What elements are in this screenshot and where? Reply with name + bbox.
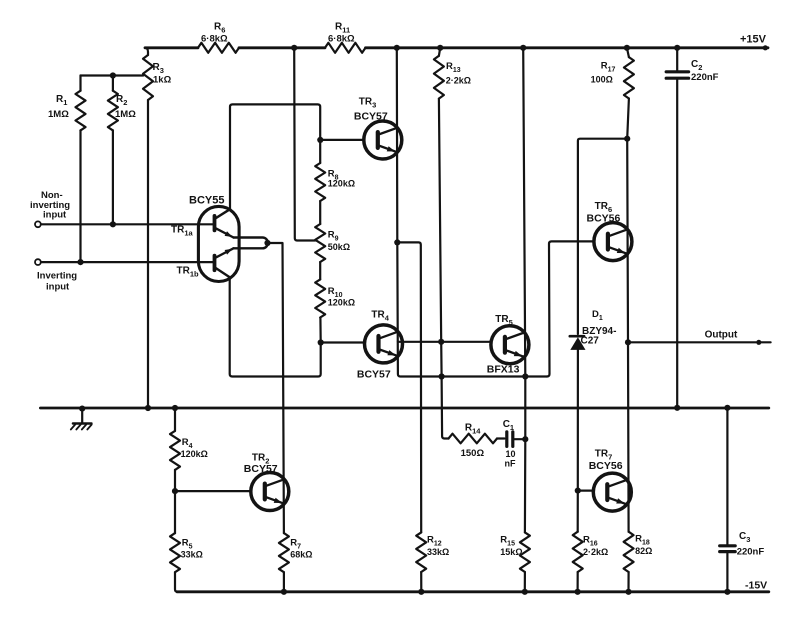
wire R15 to rail: [524, 572, 526, 592]
label C3: [737, 531, 765, 558]
svg-text:82Ω: 82Ω: [635, 546, 652, 556]
svg-text:input: input: [46, 282, 70, 293]
wire R7 to bottom rail: [283, 572, 285, 592]
wire tee to R12 column: [397, 242, 421, 532]
transistor TR1a collector: [216, 209, 231, 218]
svg-text:Output: Output: [705, 330, 738, 341]
wire ground rail: [40, 407, 768, 410]
label R7: [290, 538, 312, 560]
wire TR3-TR4 column: [397, 242, 547, 376]
wire R2 to non-inverting input: [112, 130, 114, 224]
wire TR3 collector column: [396, 48, 399, 243]
label R11: [328, 22, 355, 45]
node +15V label: [740, 34, 767, 46]
label C1: [503, 419, 516, 469]
node ground stub junction: [79, 406, 85, 412]
wire node to R16: [577, 491, 579, 532]
node tail junction: [264, 240, 270, 246]
wire TR5 collector column: [523, 48, 525, 377]
label TR4: [357, 310, 391, 381]
node TR3 emitter junction: [394, 239, 400, 245]
node emitter rail junctions: [439, 373, 529, 379]
capacitor C2: [666, 72, 688, 78]
transistor TR2: [251, 473, 289, 511]
wire emitter tail loop: [234, 238, 268, 249]
node TR5 base junction: [438, 339, 444, 345]
label TR1a: [171, 225, 194, 238]
node C3 ground junction: [724, 405, 730, 411]
wire TR5 base node to emitter wire: [440, 342, 443, 377]
svg-text:BCY55: BCY55: [189, 195, 224, 207]
svg-text:33kΩ: 33kΩ: [427, 547, 449, 557]
label R2: [115, 94, 136, 120]
node R2 non-inv junction: [110, 221, 116, 227]
wire R13 to TR5 base node: [439, 99, 441, 342]
resistor R10: [315, 279, 325, 317]
node R18 bottom: [625, 589, 631, 595]
wire R10 to TR4 base node: [319, 318, 322, 343]
svg-text:6·8kΩ: 6·8kΩ: [328, 34, 355, 45]
node inverting terminal: [35, 259, 41, 265]
label R15: [500, 535, 522, 558]
resistor R7: [279, 533, 289, 572]
label R10: [328, 286, 355, 308]
wire TR2 base: [175, 490, 251, 492]
resistor R6: [198, 43, 239, 53]
wire rail junction down to R9: [294, 48, 315, 241]
transistor TR3: [364, 121, 402, 159]
label R14: [461, 423, 485, 460]
resistor R16: [573, 532, 583, 572]
label Non-inverting input: [30, 190, 70, 221]
svg-text:15kΩ: 15kΩ: [500, 547, 522, 557]
wire TR7 base: [578, 490, 593, 492]
wire R16 to rail: [576, 572, 578, 592]
node rail junctions: [291, 45, 680, 51]
svg-text:10: 10: [506, 449, 516, 459]
wire emitter node down to C1 node: [524, 377, 526, 440]
wire R4 top: [174, 408, 176, 431]
svg-text:input: input: [43, 210, 67, 221]
wire emitter node up to TR6 base: [547, 241, 594, 376]
wire R1 R2 top: [81, 74, 144, 76]
wire TR1a collector up-over to R8: [230, 104, 320, 209]
resistor R17: [624, 48, 634, 99]
wire node to R5: [174, 491, 176, 533]
svg-text:1MΩ: 1MΩ: [48, 109, 69, 120]
transistor TR5: [491, 326, 529, 364]
node R12 bottom: [418, 589, 424, 595]
wire tail to TR2 collector column: [268, 243, 284, 533]
label R3: [153, 62, 172, 86]
wire output: [628, 340, 771, 345]
node TR4 base junction: [318, 339, 324, 345]
wire C2 top: [676, 48, 678, 71]
wire TR4 base: [321, 341, 365, 343]
svg-text:120kΩ: 120kΩ: [328, 179, 355, 189]
ground: [71, 409, 92, 430]
node non-inverting terminal: [35, 221, 41, 227]
capacitor C3: [720, 546, 736, 552]
label R18: [635, 534, 652, 557]
wire R3 column to ground rail: [147, 100, 149, 408]
label R9: [328, 230, 350, 253]
wire R4 to node: [174, 470, 176, 491]
label D1: [581, 309, 617, 347]
svg-text:120kΩ: 120kΩ: [328, 298, 355, 308]
svg-text:+15V: +15V: [740, 34, 767, 46]
wire node to D1 column: [578, 139, 627, 334]
svg-text:BCY57: BCY57: [354, 111, 388, 123]
node TR3 base junction: [317, 137, 323, 143]
label BCY55: [189, 195, 224, 207]
svg-text:2·2kΩ: 2·2kΩ: [446, 76, 471, 86]
resistor R11: [325, 43, 366, 53]
wire top +15V rail: [145, 45, 768, 50]
resistor R3: [143, 55, 153, 100]
node R16 bottom: [575, 589, 581, 595]
wire TR4 collector to TR5 base: [398, 341, 492, 343]
transistor TR6: [594, 223, 632, 261]
svg-text:nF: nF: [505, 459, 516, 469]
wire bottom -15V rail: [177, 590, 769, 593]
transistor TR7: [593, 473, 631, 511]
wire R8 to R9: [319, 201, 321, 224]
node R1 inverting junction: [77, 259, 83, 265]
label TR2: [244, 453, 278, 476]
svg-text:1kΩ: 1kΩ: [153, 75, 172, 86]
svg-text:50kΩ: 50kΩ: [328, 242, 350, 252]
transistor TR1b base bar: [213, 256, 217, 271]
svg-text:33kΩ: 33kΩ: [181, 550, 203, 560]
node R7 bottom: [281, 589, 287, 595]
resistor R18: [624, 532, 634, 572]
label -15V: [745, 580, 767, 592]
svg-text:120kΩ: 120kΩ: [181, 449, 208, 459]
svg-text:6·8kΩ: 6·8kΩ: [201, 34, 228, 45]
node output junction: [625, 339, 631, 345]
transistor TR1a base bar: [213, 216, 217, 231]
resistor R4: [170, 431, 180, 470]
label TR3: [354, 97, 388, 123]
label R17: [591, 61, 616, 85]
wire rail to R3: [145, 48, 148, 55]
resistor R15: [520, 532, 530, 572]
resistor R8: [315, 163, 325, 201]
wire R13 column to R14: [442, 377, 449, 439]
label C2: [691, 59, 719, 83]
node R4 R5 TR2 junction: [172, 488, 178, 494]
svg-text:100Ω: 100Ω: [591, 75, 613, 85]
wire TR6 collector: [626, 139, 629, 343]
wire R1 to inverting input: [79, 130, 81, 262]
node R3 ground junction: [145, 405, 151, 411]
svg-text:-15V: -15V: [745, 580, 767, 592]
transistor TR1b collector: [216, 268, 230, 277]
wire to R15: [524, 439, 527, 532]
wire R14 to C1: [497, 437, 505, 439]
svg-text:BCY57: BCY57: [244, 463, 278, 475]
wire TR3 base: [320, 139, 364, 141]
resistor R5: [170, 533, 180, 572]
svg-text:C27: C27: [581, 336, 600, 347]
wire inverting input: [41, 261, 214, 263]
svg-text:BCY56: BCY56: [589, 460, 623, 472]
svg-text:Inverting: Inverting: [37, 271, 77, 282]
svg-text:1MΩ: 1MΩ: [115, 109, 136, 120]
op-amp pair envelope BCY55: [198, 206, 239, 281]
label Inverting input: [37, 271, 77, 293]
label R16: [583, 535, 608, 558]
node R15 bottom: [522, 589, 528, 595]
wire C1 to node: [515, 438, 523, 440]
resistor R12: [416, 532, 426, 572]
resistor R1: [76, 76, 86, 131]
transistor TR1a emitter: [216, 228, 234, 237]
label TR5: [487, 314, 520, 376]
wire R9 to R10: [319, 262, 321, 279]
label R1: [48, 94, 69, 120]
label R4: [181, 437, 208, 459]
transistor TR1b emitter: [216, 248, 234, 257]
wire R12 to rail: [420, 572, 422, 592]
svg-text:220nF: 220nF: [737, 547, 765, 558]
transistor TR4: [365, 325, 403, 363]
resistor R9: [315, 224, 325, 262]
wire C2 to ground rail: [676, 80, 678, 408]
svg-text:150Ω: 150Ω: [461, 448, 485, 459]
label TR7: [589, 449, 623, 473]
label R12: [427, 535, 449, 558]
wire TR1b collector down-over: [230, 277, 321, 376]
svg-text:BCY57: BCY57: [357, 369, 391, 381]
node TR7 base junction: [575, 488, 581, 494]
label R5: [181, 538, 203, 560]
capacitor C1: [507, 432, 513, 447]
label TR1b: [177, 266, 200, 279]
wire D1 to TR7 base node: [577, 350, 579, 491]
wire R5 to bottom rail: [175, 572, 178, 592]
label R6: [201, 22, 228, 45]
wire C3 to bottom rail: [726, 553, 728, 591]
node C1 R15 junction: [522, 436, 528, 442]
svg-text:2·2kΩ: 2·2kΩ: [583, 547, 608, 557]
label Output: [705, 330, 738, 341]
resistor R2: [108, 76, 118, 131]
node R4 ground junction: [172, 405, 178, 411]
label TR6: [587, 201, 621, 225]
wire C3 top: [726, 408, 728, 545]
diode D1: [570, 336, 586, 350]
resistor R13: [434, 48, 444, 99]
resistor R14: [449, 434, 498, 444]
node R17 TR6 junction: [624, 136, 630, 142]
label R13: [446, 61, 471, 86]
wire output node to TR7 collector: [627, 342, 630, 531]
node R2 top: [110, 72, 116, 78]
svg-text:68kΩ: 68kΩ: [290, 550, 312, 560]
svg-text:220nF: 220nF: [691, 72, 719, 83]
node C3 bottom: [724, 589, 730, 595]
svg-text:BFX13: BFX13: [487, 364, 520, 376]
wire non-inverting input: [41, 223, 214, 225]
wire R18 to rail: [627, 572, 629, 592]
node C2 ground junction: [674, 405, 680, 411]
wire R17 to node: [627, 99, 629, 139]
svg-text:BCY56: BCY56: [587, 213, 621, 225]
label R8: [328, 169, 355, 189]
